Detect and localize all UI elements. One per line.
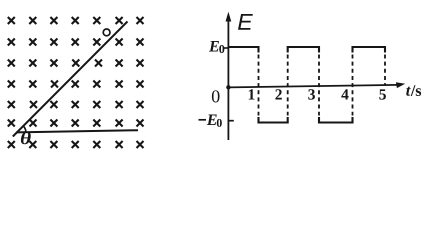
- waveform top segment 2-3: [288, 47, 319, 53]
- label E (axis): [238, 14, 253, 30]
- tick label 2: [275, 89, 281, 99]
- waveform top segment 0-1: [228, 47, 258, 53]
- E axis arrowhead: [226, 12, 232, 22]
- tick label 3: [308, 89, 315, 99]
- horizontal rail: [16, 130, 138, 132]
- magnetic field region: grid of crosses (B into page): [8, 17, 144, 148]
- waveform top segment 4-5: [353, 47, 386, 53]
- dashed vertical t=4: [352, 55, 354, 116]
- E axis (vertical): [227, 16, 229, 140]
- label E0: [209, 41, 224, 53]
- t axis arrowhead: [396, 82, 405, 88]
- tick label 4: [341, 89, 348, 99]
- dashed vertical t=1: [258, 55, 260, 116]
- ring at top end of rod: [103, 29, 110, 36]
- tick label 5: [379, 89, 386, 99]
- label 0 (origin): [212, 90, 220, 102]
- dashed vertical t=5: [384, 55, 386, 86]
- dashed vertical t=3: [318, 55, 320, 116]
- waveform bottom segment 1-2: [259, 117, 288, 123]
- angle arc at vertex: [23, 126, 26, 132]
- label t/s: [406, 85, 421, 96]
- label -E0 (E and subscript): [207, 115, 222, 127]
- sliding rod (diagonal conductor): [13, 22, 128, 137]
- origin dot: [226, 85, 230, 89]
- label theta: [21, 132, 31, 145]
- minus sign of -E0: [199, 119, 207, 121]
- dashed vertical t=2: [287, 55, 289, 116]
- t axis (horizontal): [228, 85, 398, 88]
- tick label 1: [249, 89, 255, 99]
- tick at +E0: [224, 47, 229, 49]
- tick at -E0: [228, 120, 233, 122]
- waveform bottom segment 3-4: [319, 117, 353, 123]
